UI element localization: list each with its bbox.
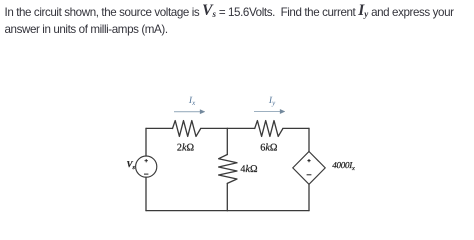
svg-text:Ix: Ix bbox=[188, 95, 196, 107]
wire middle lower bbox=[226, 183, 228, 210]
svg-text:Iy: Iy bbox=[268, 95, 276, 107]
dependent source plus sign bbox=[307, 159, 310, 162]
svg-text:6kΩ: 6kΩ bbox=[260, 142, 278, 153]
wire top-middle segment bbox=[201, 127, 255, 129]
voltage source plus sign bbox=[145, 159, 148, 162]
wire right lower bbox=[308, 184, 310, 210]
voltage source minus sign bbox=[144, 173, 148, 175]
wire left upper bbox=[145, 128, 147, 156]
dependent source 4000Ix diamond bbox=[293, 152, 325, 185]
node A: top junction of middle branch bbox=[226, 127, 228, 129]
resistor 4k bbox=[219, 155, 237, 184]
wire top-right segment bbox=[283, 127, 309, 129]
current arrow Iy bbox=[254, 109, 285, 113]
wire top-left segment bbox=[146, 127, 173, 129]
resistor 2k bbox=[173, 121, 201, 137]
svg-text:Vs: Vs bbox=[127, 159, 136, 171]
svg-text:4000Ix: 4000Ix bbox=[332, 160, 355, 172]
dependent source minus sign bbox=[307, 174, 312, 176]
voltage source Vs circle bbox=[136, 156, 157, 177]
svg-text:4kΩ: 4kΩ bbox=[240, 164, 258, 175]
wire right upper bbox=[308, 128, 310, 151]
wire left lower bbox=[145, 177, 147, 210]
current arrow Ix bbox=[174, 110, 205, 114]
wire bottom bbox=[146, 210, 309, 212]
wire middle upper bbox=[226, 128, 228, 154]
node B: bottom junction of middle branch bbox=[226, 210, 228, 212]
resistor 6k bbox=[255, 121, 283, 137]
svg-text:2kΩ: 2kΩ bbox=[177, 142, 195, 153]
